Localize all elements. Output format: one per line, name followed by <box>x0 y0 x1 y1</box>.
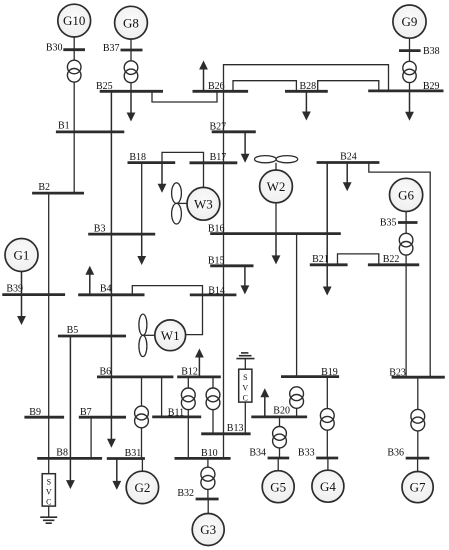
svg-text:B16: B16 <box>208 223 225 234</box>
load arrow up on B12 <box>195 349 204 377</box>
bus B22 <box>368 254 419 265</box>
wire B12 to T1 <box>187 377 189 388</box>
transformer T33 (B19-B33) <box>320 409 334 431</box>
svg-text:S: S <box>243 373 247 382</box>
bus B1 <box>56 121 124 132</box>
bus B38 <box>399 46 440 57</box>
svg-text:G7: G7 <box>410 480 426 495</box>
bus B8 <box>37 448 102 459</box>
bus B33 <box>298 448 338 459</box>
wire transformer to B22 <box>405 255 407 265</box>
bus B26 <box>193 81 249 92</box>
svg-text:W1: W1 <box>161 328 180 343</box>
wire B20 to transformer <box>279 417 281 427</box>
wire B6 to transformer <box>141 377 143 406</box>
bus B6 <box>97 366 173 377</box>
load arrow up on B4 <box>85 266 94 295</box>
bus B29 <box>368 81 443 92</box>
svg-text:B26: B26 <box>208 81 225 92</box>
svg-text:B34: B34 <box>249 448 266 459</box>
bus B30 <box>46 43 85 54</box>
load arrow below B16 <box>272 234 281 265</box>
load arrow below B31 <box>112 459 121 490</box>
line B26-B28 <box>233 81 296 92</box>
wire G6 to B35 <box>405 212 407 223</box>
svg-text:B28: B28 <box>300 81 317 92</box>
wire B33 to G4 <box>327 458 329 470</box>
svg-text:G3: G3 <box>200 522 216 537</box>
wind farm W3 <box>172 183 220 224</box>
svg-text:B5: B5 <box>67 325 79 336</box>
transformer T2 (B12-B13) <box>206 388 220 410</box>
generator G9 <box>393 5 426 38</box>
svg-text:B4: B4 <box>100 283 112 294</box>
wire G1-B39 with load arrow <box>17 272 26 326</box>
load arrow up on B20 <box>260 388 269 417</box>
svg-text:B10: B10 <box>201 448 218 459</box>
wire ground to SVC2 <box>244 359 246 370</box>
bus B37 <box>103 43 143 54</box>
bus B4 <box>78 283 144 295</box>
svg-text:B35: B35 <box>380 218 397 229</box>
bus B28 <box>285 81 328 92</box>
wire W2 to B16 <box>275 203 277 234</box>
wire transformer to B36 <box>417 431 419 458</box>
bus B5 <box>58 325 126 336</box>
wire B7-B8 <box>90 417 92 458</box>
wire B8 to SVC1 <box>48 458 50 473</box>
wire transformer to B2 through B1 <box>73 82 75 193</box>
line B18-B17 <box>162 152 204 162</box>
generator G8 <box>115 6 148 39</box>
wire trunk B26-B27-B17-B16-B15-B14-B13-B10 <box>223 91 225 458</box>
wire B34 to G5 <box>277 458 279 471</box>
transformer T20 (B19-B20) <box>290 387 304 408</box>
wind farm W2 <box>254 156 297 203</box>
wire transformer to B34 <box>279 448 281 458</box>
SVC2 on B13 <box>239 369 252 402</box>
wire B18-B3 <box>141 163 143 235</box>
wind farm W1 <box>139 314 186 357</box>
line B28-B29 <box>318 81 379 92</box>
bus B35 <box>380 218 418 229</box>
svg-text:B14: B14 <box>208 285 225 296</box>
wire B19 to T33 <box>326 377 328 409</box>
line B24-B23 (right wrap) <box>369 163 430 378</box>
svg-text:B21: B21 <box>312 254 329 265</box>
line B26-B29 (top) <box>224 65 389 92</box>
svg-text:G4: G4 <box>320 479 336 494</box>
generator G3 <box>192 514 224 546</box>
transformer T7 (B23-B36) <box>411 409 425 431</box>
svg-text:B32: B32 <box>177 488 194 499</box>
svg-text:B6: B6 <box>100 366 112 377</box>
svg-text:B13: B13 <box>227 423 244 434</box>
svg-text:V: V <box>242 383 248 392</box>
wire T2 to B13 <box>212 410 214 434</box>
svg-text:B18: B18 <box>129 152 146 163</box>
transformer T31 (B6-B31) <box>135 406 149 428</box>
line B4-B14 <box>132 286 202 295</box>
svg-text:B36: B36 <box>387 448 404 459</box>
bus B23 <box>389 368 445 379</box>
line B21-B22 <box>338 254 379 265</box>
bus B25 <box>96 81 163 92</box>
bus B24 <box>317 152 380 163</box>
wire B38 to transformer <box>409 51 411 62</box>
bus B10 <box>175 448 231 459</box>
wire B24-B16-B21 with load arrow <box>323 163 332 296</box>
bus B14 <box>190 285 237 296</box>
bus B27 <box>210 122 256 133</box>
wire trunk B25-B1-B3-B4-B5-B6-B7 with load arrow <box>107 91 116 448</box>
load arrow below B25 <box>127 91 136 121</box>
generator G6 <box>390 178 423 211</box>
bus B36 <box>387 448 429 459</box>
svg-text:W3: W3 <box>194 196 213 211</box>
svg-text:G9: G9 <box>402 14 418 29</box>
transformer T3 (B10-B32) <box>201 467 215 489</box>
wire B6-B11 <box>161 377 163 417</box>
transformer T6 (B35-B22) <box>399 233 413 255</box>
bus B7 <box>79 407 126 418</box>
svg-text:B17: B17 <box>210 152 227 163</box>
bus B32 <box>177 488 218 499</box>
wire B11-B10 <box>187 417 189 459</box>
bus B16 <box>208 223 341 234</box>
svg-text:C: C <box>243 394 248 403</box>
wire B10 to transformer <box>207 458 209 467</box>
load arrow up on B26 <box>199 61 208 92</box>
wire G8 to B37 <box>130 39 132 50</box>
load arrow below B15 <box>241 266 250 295</box>
svg-text:B12: B12 <box>181 366 198 377</box>
wire transformer to B31 <box>141 428 143 459</box>
transformer T10 (B30-B2) <box>67 60 81 82</box>
ground below SVC1 <box>40 517 57 523</box>
bus B12 <box>177 366 221 377</box>
wire SVC2 to B13 <box>244 402 246 434</box>
generator G2 <box>126 471 158 503</box>
svg-text:B31: B31 <box>125 448 142 459</box>
wire SVC1 to ground <box>48 506 50 517</box>
svg-text:B23: B23 <box>389 368 406 379</box>
svg-text:B15: B15 <box>208 255 225 266</box>
wire G9 to B38 <box>409 38 411 50</box>
bus B39 <box>2 283 65 294</box>
wire T33 to B33 <box>326 430 328 458</box>
svg-text:B37: B37 <box>103 43 120 54</box>
svg-text:B11: B11 <box>168 407 184 418</box>
svg-text:V: V <box>46 488 52 497</box>
wire B16-B19 <box>296 234 298 377</box>
svg-text:B9: B9 <box>29 407 41 418</box>
svg-text:B3: B3 <box>94 224 106 235</box>
transformer T1 (B12-B11) <box>181 388 195 410</box>
bus B18 <box>128 152 176 163</box>
wire transformer to B29 <box>409 83 411 91</box>
svg-text:G8: G8 <box>123 15 139 30</box>
bus B19 <box>281 367 339 378</box>
bus B13 <box>201 423 250 434</box>
svg-text:C: C <box>46 498 51 507</box>
wire B22-B23 <box>405 265 407 377</box>
svg-text:B22: B22 <box>383 254 400 265</box>
wire transformer to B32 <box>207 490 209 500</box>
transformer T8 (B37-B25) <box>124 61 138 83</box>
load arrow below B28 <box>302 91 311 120</box>
transformer T5 (B20-B34) <box>273 427 287 448</box>
SVC1 on B8 <box>42 474 55 507</box>
wire B30 to transformer <box>73 50 75 61</box>
svg-text:B24: B24 <box>340 152 357 163</box>
bus B11 <box>152 407 201 418</box>
svg-text:S: S <box>47 477 51 486</box>
wire B17 to W3 <box>203 163 205 188</box>
bus B9 <box>24 407 64 418</box>
wire T20 to B20 <box>296 408 298 417</box>
svg-text:B27: B27 <box>210 122 227 133</box>
generator G7 <box>402 472 433 503</box>
generator G5 <box>262 471 294 503</box>
bus B34 <box>249 448 289 459</box>
load arrow below B18 <box>158 163 167 193</box>
svg-text:B1: B1 <box>58 121 70 132</box>
bus B20 <box>251 405 307 417</box>
bus B3 <box>88 224 155 235</box>
wire B14 to W1 <box>185 295 202 335</box>
wire B37 to transformer <box>130 50 132 61</box>
line B25-B26 <box>152 91 217 102</box>
wire B31 to G2 <box>141 459 143 472</box>
svg-text:B20: B20 <box>273 405 290 416</box>
bus B21 <box>310 254 348 265</box>
svg-text:G6: G6 <box>398 188 414 203</box>
generator G1 <box>5 239 38 272</box>
svg-text:B33: B33 <box>298 448 315 459</box>
svg-text:G1: G1 <box>14 248 30 263</box>
svg-text:B25: B25 <box>96 81 113 92</box>
load arrow below B24 <box>343 163 352 192</box>
svg-text:B19: B19 <box>321 367 338 378</box>
wire T1 to B11 <box>187 410 189 417</box>
svg-text:B8: B8 <box>56 448 68 459</box>
bus B17 <box>190 152 238 163</box>
svg-text:B39: B39 <box>6 283 23 294</box>
ground above SVC2 <box>236 353 254 359</box>
load arrow below B3 <box>137 234 146 265</box>
svg-text:B29: B29 <box>423 81 440 92</box>
svg-text:G5: G5 <box>270 479 286 494</box>
bus B31 <box>107 448 145 459</box>
svg-text:W2: W2 <box>267 179 286 194</box>
svg-text:B38: B38 <box>423 46 440 57</box>
generator G4 <box>312 470 344 502</box>
wire B32 to G3 <box>207 499 209 514</box>
svg-text:B30: B30 <box>46 43 63 54</box>
wire B12 to T2 <box>212 377 214 388</box>
wire B36 to G7 <box>417 458 419 472</box>
generator G10 <box>58 4 91 37</box>
bus B15 <box>208 255 254 266</box>
svg-text:B2: B2 <box>38 182 50 193</box>
svg-text:B7: B7 <box>80 407 92 418</box>
bus B2 <box>32 182 84 193</box>
wire transformer to B25 <box>130 83 132 92</box>
svg-text:G2: G2 <box>134 480 150 495</box>
wire B35 to transformer <box>405 223 407 234</box>
load arrow below B29 <box>405 91 414 121</box>
wire B2-B39-B9-B8 <box>48 193 50 458</box>
wire B5-B8 with load arrow <box>66 336 75 489</box>
wire B23 to transformer <box>417 377 419 410</box>
wire G10 to B30 <box>73 37 75 50</box>
svg-text:G10: G10 <box>63 13 85 28</box>
transformer T9 (B38-B29) <box>403 61 416 82</box>
load arrow below B27 <box>241 132 250 163</box>
